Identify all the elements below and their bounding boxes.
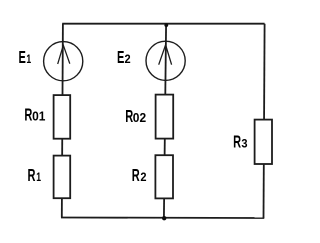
wire right branch R3 xyxy=(264,24,265,218)
node junction dot top (middle branch to top rail) xyxy=(164,23,168,27)
svg-text:E: E xyxy=(117,49,125,68)
label R02 xyxy=(125,108,146,127)
label R01 xyxy=(24,106,45,125)
resistor R01 body xyxy=(54,95,71,139)
wire left branch E1-R01-R1 xyxy=(62,24,63,218)
svg-text:3: 3 xyxy=(241,137,248,151)
EMF source E1 circle xyxy=(44,42,83,81)
label R1 xyxy=(28,167,42,186)
svg-text:R: R xyxy=(132,166,140,185)
svg-text:1: 1 xyxy=(36,170,41,184)
label R2 xyxy=(132,166,147,185)
EMF source E2 arrow head xyxy=(159,45,172,65)
svg-text:2: 2 xyxy=(125,52,132,66)
wire top rail node 1 xyxy=(62,23,264,25)
node junction dot bottom (middle branch to bottom rail) xyxy=(162,216,166,220)
svg-text:02: 02 xyxy=(133,111,146,125)
resistor R02 body xyxy=(156,95,174,139)
svg-text:E: E xyxy=(19,49,27,68)
svg-text:1: 1 xyxy=(26,53,31,67)
EMF source E1 arrow head xyxy=(58,45,70,64)
svg-text:R: R xyxy=(28,167,36,186)
label R3 xyxy=(233,133,248,152)
svg-text:01: 01 xyxy=(32,109,45,123)
resistor R1 body xyxy=(54,156,71,199)
resistor R2 body xyxy=(155,155,173,198)
label E1 xyxy=(19,49,32,68)
wire middle branch E2-R02-R2 xyxy=(164,24,166,218)
wire bottom rail node 2 xyxy=(61,217,264,220)
resistor R3 body xyxy=(255,120,272,164)
EMF source E2 circle xyxy=(146,41,185,80)
svg-text:R: R xyxy=(233,133,241,152)
svg-text:2: 2 xyxy=(140,170,147,184)
label E2 xyxy=(117,49,131,68)
